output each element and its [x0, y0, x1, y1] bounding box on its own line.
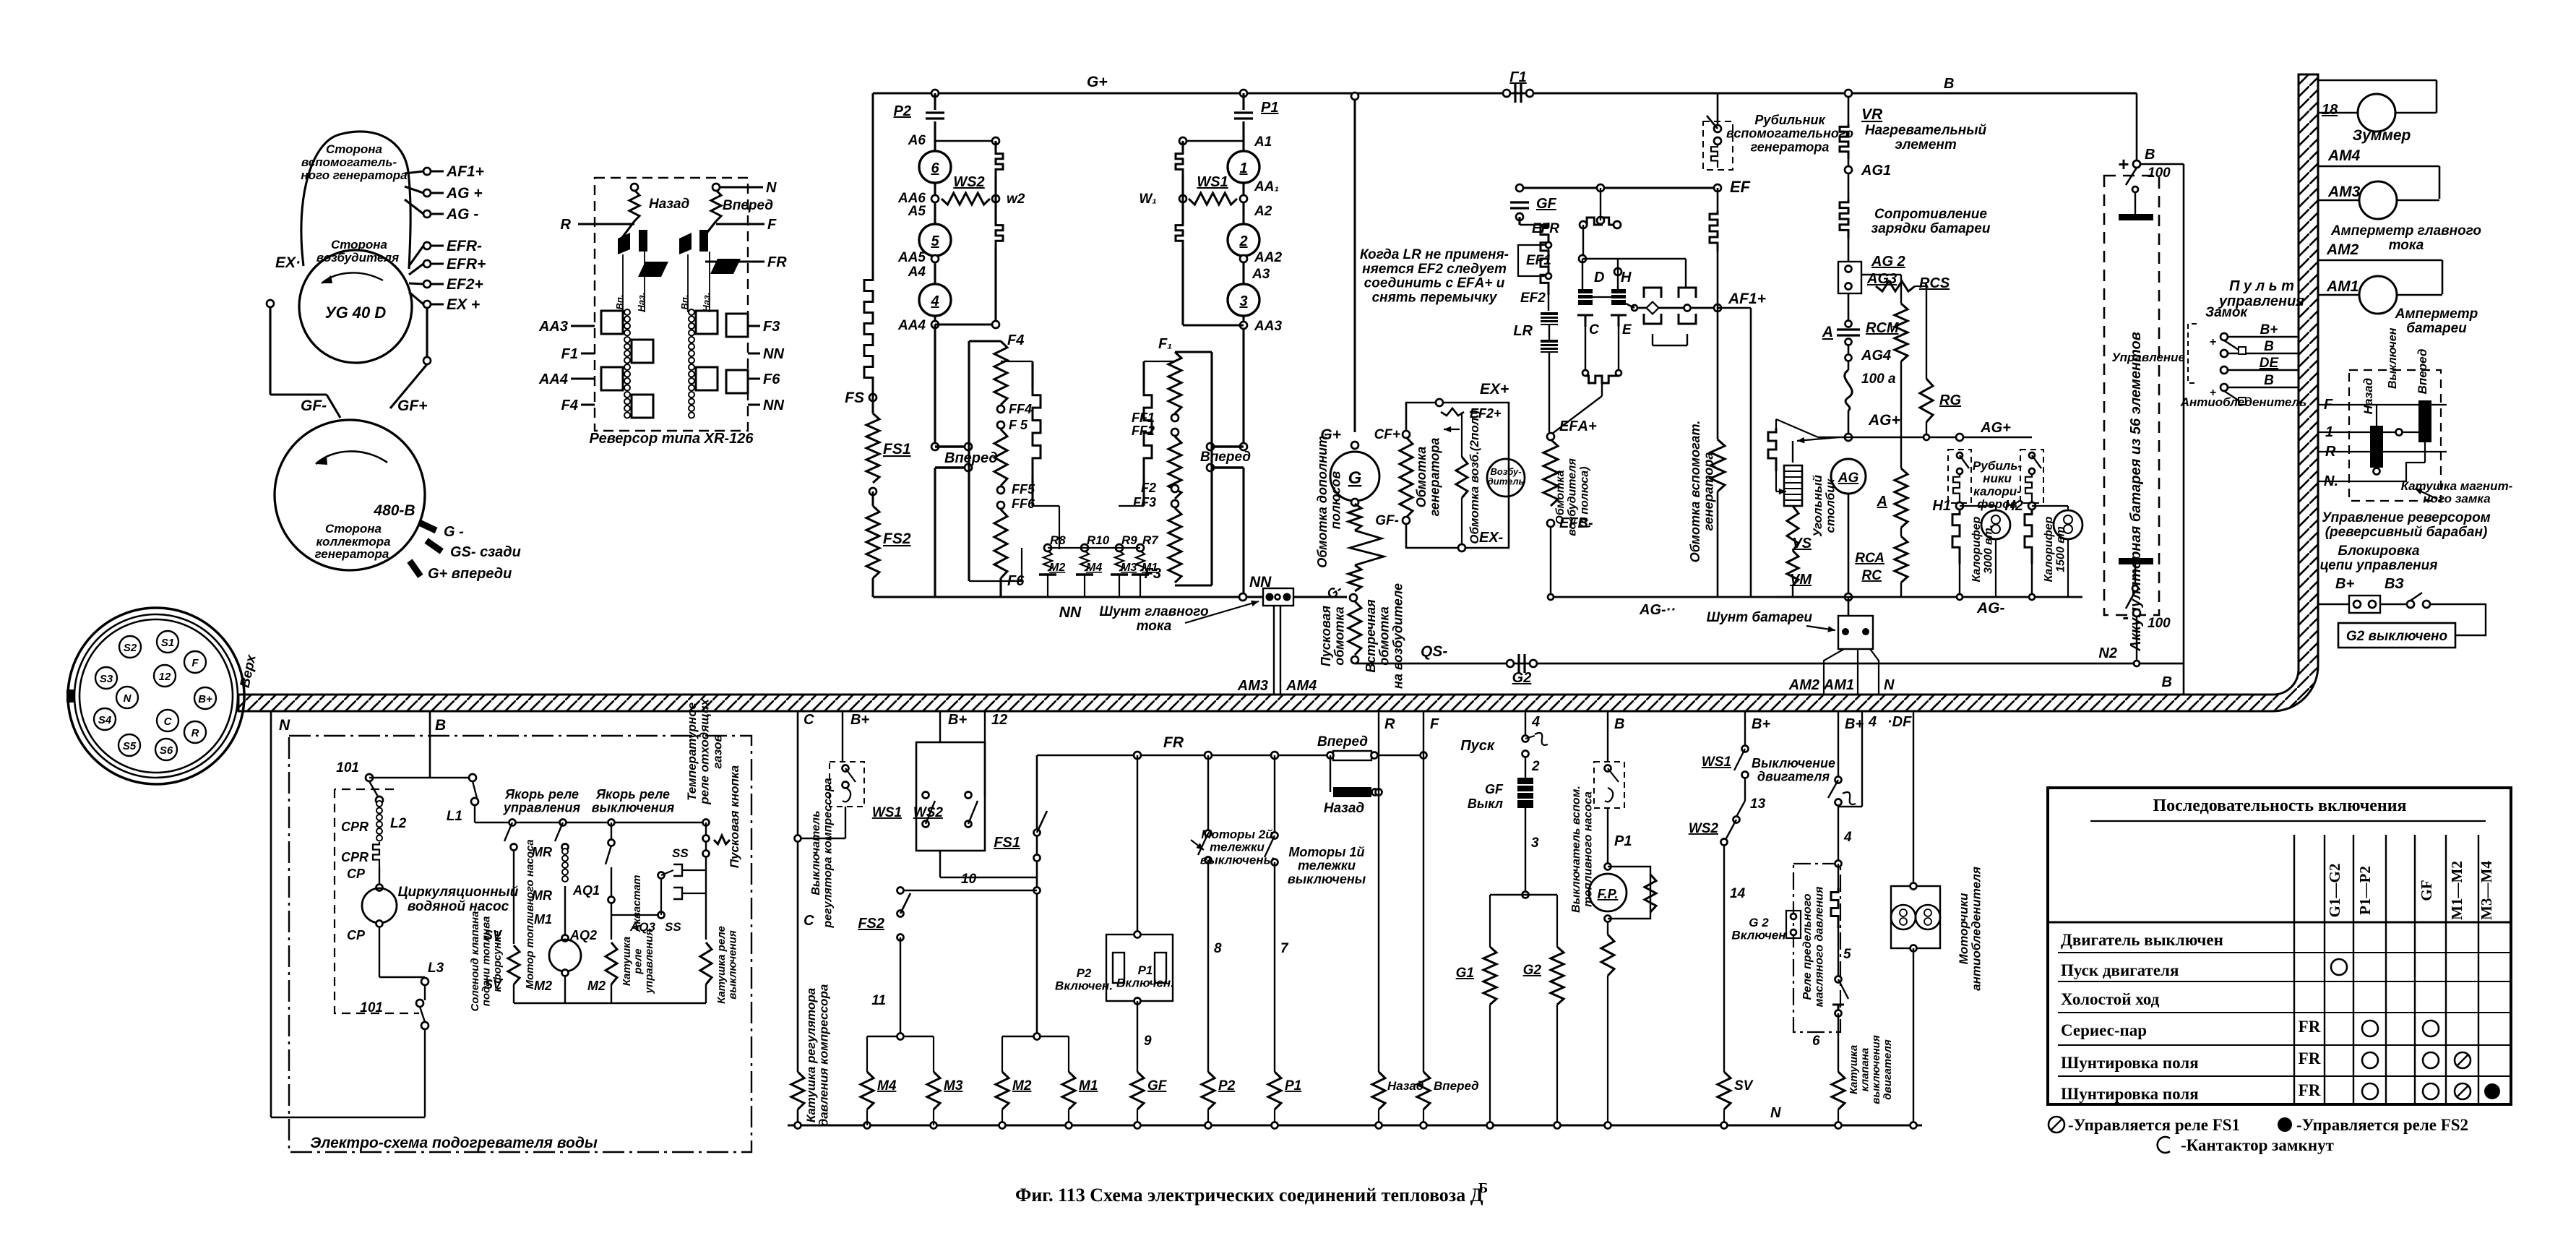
node vpered L1r	[965, 443, 972, 450]
svg-text:SS: SS	[665, 920, 681, 934]
shunt arrow	[1185, 601, 1259, 623]
node FF6	[997, 502, 1004, 509]
svg-text:Обмотка возб.(2пол.): Обмотка возб.(2пол.)	[1468, 410, 1481, 544]
connector pin R	[184, 721, 206, 743]
svg-text:Вперед: Вперед	[2416, 349, 2429, 395]
node AA2	[1240, 255, 1247, 262]
node GF+	[423, 357, 431, 364]
wire RG down	[1926, 422, 1927, 437]
ammeter AG	[1831, 459, 1866, 494]
wire drum right	[702, 221, 716, 239]
oil sw b	[1835, 1010, 1842, 1017]
wire relay right down	[1685, 259, 1687, 288]
svg-text:L1: L1	[447, 809, 462, 824]
wire R rail	[1378, 1109, 1379, 1125]
svg-text:В: В	[2264, 373, 2274, 388]
mark sh2 m1m2	[2455, 1083, 2471, 1099]
svg-text:SS: SS	[672, 846, 689, 860]
resistor vpered coil2	[1417, 1072, 1430, 1109]
motor anti2 in t	[1924, 909, 1931, 916]
svg-text:w2: w2	[1007, 192, 1025, 207]
wire M2 rail	[1001, 1109, 1003, 1125]
resistor F1a	[1168, 352, 1181, 413]
svg-text:генератора: генератора	[315, 547, 389, 561]
node AQ top	[608, 820, 615, 826]
svg-text:Обмоткагенератора: Обмоткагенератора	[1414, 438, 1442, 517]
wire N down	[270, 711, 272, 1117]
wire top heater	[369, 777, 473, 779]
arrow pile	[1776, 489, 1786, 495]
svg-text:G2: G2	[1523, 963, 1542, 978]
resistor rubilnik	[1711, 145, 1718, 168]
wire RCM v	[1900, 275, 1902, 304]
node G-	[1350, 594, 1357, 601]
node EFB-	[1547, 520, 1554, 527]
mark sh1 m1m2	[2455, 1052, 2471, 1068]
pusk link	[1525, 736, 1535, 739]
wire branchR v4	[1181, 249, 1184, 325]
svg-text:Пусковаяобмотка: Пусковаяобмотка	[1319, 605, 1347, 666]
node bump L	[1580, 221, 1587, 228]
switch blok box	[2349, 596, 2380, 613]
rail node M1	[1066, 1122, 1072, 1129]
terminal pult В	[2220, 350, 2228, 357]
drum segment R1	[696, 311, 718, 334]
wire GF- to commutator	[327, 395, 340, 418]
inductor LR lower	[1541, 340, 1558, 353]
contact flag3	[679, 233, 692, 254]
relay coil H stripes	[1611, 294, 1626, 299]
svg-text:Нагревательныйэлемент: Нагревательныйэлемент	[1865, 123, 1987, 152]
svg-text:А3: А3	[1252, 267, 1270, 282]
svg-text:F 5: F 5	[1009, 418, 1028, 432]
wire bank L b2	[1021, 548, 1022, 581]
wire oil v3	[1838, 864, 1839, 888]
wire AA4 branch	[935, 323, 996, 325]
svg-text:вспомогатель-: вспомогатель-	[301, 155, 397, 169]
wire P2 rail	[1207, 1109, 1209, 1125]
wire blok mid	[2380, 603, 2406, 605]
svg-text:А2: А2	[1254, 204, 1272, 219]
terminal circle EF2+	[423, 280, 431, 288]
resistor F1b	[1168, 437, 1181, 499]
node A cap top	[1845, 321, 1852, 327]
connector pin N	[116, 687, 138, 708]
resistor WS1	[1189, 193, 1237, 205]
svg-text:4: 4	[930, 293, 939, 309]
svg-text:СР: СР	[347, 928, 366, 942]
wire AM1	[1857, 649, 1858, 695]
resistor branch upper	[996, 151, 1003, 177]
svg-text:М1: М1	[534, 912, 552, 927]
resistor nazad coil	[629, 190, 639, 221]
svg-text:АА2: АА2	[1254, 250, 1282, 265]
node FS1 bottom	[869, 488, 876, 495]
svg-text:LR: LR	[1513, 323, 1533, 339]
node A cap bot	[1845, 339, 1852, 345]
svg-text:RСМ: RСМ	[1866, 320, 1900, 336]
resistor R7	[1136, 551, 1145, 571]
svg-text:В: В	[2264, 339, 2274, 354]
svg-text:GF: GF	[2418, 880, 2435, 901]
resistor fp loop	[1645, 875, 1656, 912]
fuse vpered	[1333, 751, 1371, 760]
svg-text:18: 18	[2322, 102, 2338, 118]
svg-text:АG-··: АG-··	[1639, 602, 1676, 618]
wire fuel down	[1607, 808, 1608, 864]
svg-text:S2: S2	[124, 642, 137, 654]
wire AQ1 down	[611, 867, 612, 897]
wire stepL to bank	[1033, 505, 1059, 507]
resistor katushka vykl	[700, 942, 712, 984]
svg-text:4: 4	[1843, 830, 1852, 845]
wire pile top	[1792, 441, 1793, 463]
generator G	[1330, 452, 1379, 501]
svg-text:WS2: WS2	[953, 174, 984, 190]
capacitor G1 plate	[1520, 84, 1522, 103]
svg-text:N: N	[279, 717, 290, 734]
switch MR blade	[555, 822, 563, 841]
shunt bat dot1	[1842, 628, 1849, 635]
rail node M3	[931, 1122, 937, 1129]
svg-text:RСА: RСА	[1855, 551, 1884, 566]
resistor zaryadki	[1840, 199, 1848, 239]
wire to AG2	[1848, 239, 1850, 262]
switch regulator dashed	[830, 762, 864, 807]
fr end	[1327, 752, 1334, 759]
svg-text:N: N	[1770, 1105, 1781, 1121]
node H2 bot	[2029, 594, 2035, 600]
p1 sw b	[1272, 859, 1278, 866]
heater inner dashed	[335, 789, 419, 1013]
rail node SV	[1721, 1122, 1728, 1129]
svg-text:+: +	[2210, 387, 2216, 399]
connector pin S3	[95, 667, 117, 689]
resistor M2	[996, 1072, 1009, 1109]
resistor RCM	[1895, 304, 1908, 361]
wire M4 v	[866, 1036, 868, 1072]
node FF3	[1171, 500, 1179, 507]
svg-text:В+: В+	[850, 712, 869, 728]
lead F1	[581, 352, 595, 354]
svg-text:AG -: AG -	[446, 206, 478, 223]
fs1 blade	[1037, 811, 1047, 833]
resistor EF2 tap	[1441, 408, 1464, 416]
wire 4-AA4	[934, 316, 936, 325]
switch rubilnik blade	[1707, 116, 1718, 129]
svg-text:8: 8	[1214, 941, 1222, 956]
svg-text:АG4: АG4	[1861, 348, 1891, 364]
wire EX- down	[269, 307, 271, 395]
svg-text:А6: А6	[908, 133, 926, 148]
svg-text:-Кантактор замкнут: -Кантактор замкнут	[2181, 1136, 2335, 1154]
wire motor down	[564, 976, 566, 1003]
svg-text:ЕF2: ЕF2	[1520, 291, 1546, 306]
terminal stub GS- сзади	[426, 541, 441, 551]
svg-text:Моторчикиантиобледенителя: Моторчикиантиобледенителя	[1957, 867, 1983, 991]
svg-text:Р1: Р1	[1614, 833, 1632, 849]
wire QS-	[1355, 663, 2184, 665]
rail node C	[795, 1122, 801, 1129]
node L1 b	[471, 798, 478, 805]
node GF-2	[1403, 517, 1410, 524]
terminal tick AG +	[405, 186, 423, 193]
wire stepR to bank	[1119, 505, 1144, 507]
resistor GF coil	[1131, 1072, 1144, 1109]
svg-text:В: В	[2145, 147, 2155, 163]
node AA5	[931, 255, 939, 262]
resistor P1 coil	[1268, 1072, 1281, 1109]
contact vpered R1	[1210, 445, 1244, 447]
arrow EF2	[1444, 426, 1460, 433]
wire RCM top	[1861, 274, 1901, 275]
terminal block AG2-AG3	[1838, 262, 1861, 293]
wire lamp top Н1	[1995, 506, 1996, 510]
wire MR down	[564, 886, 566, 935]
contact fork 4	[1679, 314, 1696, 324]
node pump top	[376, 885, 383, 891]
node CF+	[1403, 431, 1410, 438]
svg-text:Реверсор типа ХR-126: Реверсор типа ХR-126	[590, 431, 754, 447]
switch L1 blade	[473, 781, 477, 798]
wire branchR v3	[1181, 199, 1184, 223]
svg-text:Н1: Н1	[1932, 498, 1951, 514]
resistor RCA	[1895, 536, 1908, 583]
lamp inner bot Н2	[2064, 525, 2072, 533]
svg-text:АQ1: АQ1	[572, 883, 600, 898]
svg-text:Моторы 2йтележкивыключены: Моторы 2йтележкивыключены	[1200, 828, 1275, 867]
wire AG down	[1848, 494, 1850, 597]
terminal stub G -	[419, 523, 436, 530]
svg-text:В: В	[2162, 674, 2172, 690]
resistor F4c	[994, 510, 1007, 578]
wire R lead	[578, 223, 634, 225]
resistor katushka upr	[606, 942, 617, 984]
wire AA3 branch	[1183, 324, 1244, 326]
svg-text:Шунт батареи: Шунт батареи	[1707, 610, 1813, 625]
svg-text:-: -	[2122, 606, 2129, 627]
wire B+1 down	[845, 807, 846, 838]
oil blade	[1828, 780, 1838, 798]
wire AG+ right	[1848, 437, 2032, 439]
wire bottom rail	[788, 1125, 1922, 1127]
svg-text:В: В	[1614, 716, 1624, 732]
p2 blade	[1198, 833, 1208, 855]
svg-text:GF-: GF-	[301, 398, 327, 414]
wire shunt to G-	[1293, 596, 1347, 598]
wire branchR top	[1183, 140, 1244, 142]
terminal pult DЕ	[2220, 366, 2228, 374]
svg-text:NN: NN	[1059, 604, 1082, 621]
motor anti1 in t	[1900, 909, 1907, 916]
svg-text:R: R	[191, 727, 199, 739]
svg-text:М4: М4	[877, 1078, 897, 1094]
wire AG2 down	[1848, 293, 1850, 324]
battery bottom switch blade	[2126, 591, 2135, 609]
contact SS fork2	[673, 888, 682, 899]
svg-text:5: 5	[931, 233, 939, 249]
ws2e n1	[1733, 817, 1740, 823]
drum contacts col1	[624, 309, 630, 418]
wire H stem	[1617, 259, 1619, 289]
table column line 0	[2293, 835, 2295, 1104]
oil sw t	[1835, 976, 1842, 983]
wire inner vert	[1461, 413, 1463, 457]
wire C stem	[1585, 327, 1586, 373]
node M21	[1034, 1034, 1041, 1040]
svg-text:В: В	[1944, 76, 1954, 92]
svg-text:АА3: АА3	[538, 319, 568, 335]
wire AM2 right	[2442, 260, 2444, 294]
node bat bottom	[2133, 609, 2140, 616]
svg-text:АG3: АG3	[1866, 271, 1897, 287]
svg-text:G 2Включен: G 2Включен	[1731, 916, 1785, 942]
oil n1	[1835, 777, 1842, 783]
rail node M2	[999, 1122, 1006, 1129]
connector pin F	[184, 651, 206, 673]
svg-text:М2: М2	[1049, 562, 1065, 574]
drum segment L2	[632, 340, 653, 363]
node G1 right	[1526, 90, 1533, 97]
lead AA3	[571, 325, 595, 327]
wire G2 down	[1556, 1005, 1558, 1125]
node L1 a	[469, 774, 476, 781]
wire EX+ down	[426, 308, 428, 357]
ws2 node b	[965, 821, 972, 828]
contact fork 3	[1644, 314, 1661, 324]
fs2 blade	[900, 893, 910, 914]
resistor pile steps	[1768, 428, 1776, 471]
svg-text:480-В: 480-В	[373, 502, 415, 519]
svg-text:АG+: АG+	[1980, 420, 2011, 436]
fr node p2	[1205, 752, 1212, 759]
svg-text:М2: М2	[1012, 1078, 1032, 1094]
svg-text:WS1: WS1	[872, 805, 902, 820]
node KV b	[703, 851, 710, 857]
rail node M4	[864, 1122, 871, 1129]
node vpered R1l	[1207, 443, 1214, 450]
node EF1 bot	[1546, 273, 1551, 279]
wire FR lead	[705, 260, 764, 262]
node bbump L	[1582, 370, 1588, 376]
main current shunt box	[1263, 588, 1293, 606]
wire oil rail	[1838, 1109, 1839, 1125]
wire E stem	[1618, 327, 1619, 373]
wire ws2e down	[1723, 845, 1725, 1072]
node EF left	[1516, 184, 1523, 192]
wire P1 cap lead	[1242, 93, 1244, 110]
ws1e n1	[1742, 746, 1749, 752]
wire 5-AA5	[934, 256, 936, 284]
heater dash-dot box	[289, 736, 751, 1152]
svg-text:G1: G1	[1456, 966, 1474, 981]
capacitor GF plate	[1510, 207, 1529, 209]
wire P2-A6	[934, 121, 936, 151]
node AA4	[931, 321, 939, 328]
wire aq3 h	[611, 914, 661, 916]
resistor vpered coil	[711, 190, 721, 221]
svg-text:Сторона: Сторона	[326, 142, 382, 156]
svg-text:+: +	[2118, 153, 2129, 175]
svg-text:6: 6	[931, 160, 939, 176]
battery top switch blade	[2126, 168, 2137, 185]
svg-text:АМ4: АМ4	[2327, 147, 2361, 164]
wire FS1 gap	[872, 491, 874, 506]
svg-text:101: 101	[360, 1000, 383, 1015]
arrow katushka	[2415, 489, 2437, 499]
wire EF line	[1520, 187, 1718, 189]
svg-text:АМ4: АМ4	[1285, 678, 1317, 694]
oil relay dashdot box	[1793, 864, 1840, 1032]
fuse nazad	[1333, 787, 1371, 797]
arrowhead	[322, 275, 332, 283]
inductor LR upper	[1541, 312, 1558, 325]
resistor R10	[1080, 551, 1089, 571]
wire DH link	[1593, 296, 1611, 298]
svg-text:S5: S5	[123, 740, 137, 752]
contact SS fork1	[673, 864, 682, 876]
node EFA+	[1547, 433, 1554, 440]
node G1 left	[1503, 90, 1510, 97]
terminal lead EF2+	[431, 283, 444, 285]
svg-text:Электро-схема подогревателя во: Электро-схема подогревателя воды	[310, 1135, 598, 1151]
contact C bar	[1577, 315, 1593, 327]
node efb corner	[1548, 594, 1554, 600]
wire R8 down	[1047, 575, 1048, 597]
wire ws box down	[939, 851, 941, 877]
terminal circle EX +	[423, 301, 431, 308]
svg-text:В+: В+	[2260, 322, 2278, 338]
fuse GF stripes	[1517, 785, 1533, 799]
fp top	[1605, 864, 1611, 870]
svg-text:FS1: FS1	[994, 835, 1020, 851]
wire R9 down	[1119, 575, 1120, 597]
wire ws1e v2	[1737, 777, 1745, 778]
resistor pusk	[1348, 601, 1361, 655]
wire 1-AA1	[1242, 183, 1244, 224]
wire stepR top	[1142, 361, 1145, 389]
contactor 4	[919, 284, 951, 316]
terminal tick AF1+	[405, 171, 423, 173]
switch reg blade	[845, 768, 856, 782]
wire pump corner	[379, 976, 425, 978]
mark sh2 p1p2	[2362, 1083, 2378, 1099]
svg-text:ЕFВ-: ЕFВ-	[1559, 515, 1593, 531]
svg-text:Р1: Р1	[1285, 1078, 1301, 1094]
wire stepL bottom	[1031, 477, 1033, 506]
shunt dot right	[1283, 593, 1291, 601]
drum contacts col2	[689, 309, 694, 418]
svg-text:тока: тока	[1137, 619, 1172, 634]
relay blade	[1626, 304, 1634, 308]
node F5	[997, 421, 1004, 429]
node AG+ H1	[1956, 434, 1963, 441]
resistor WS2	[942, 193, 990, 205]
svg-text:Шунтировка поля: Шунтировка поля	[2061, 1054, 2199, 1072]
relay coil D	[1578, 289, 1593, 305]
resistor FS2	[866, 506, 879, 578]
node EF1 top	[1546, 242, 1551, 248]
wire RG top	[1915, 285, 1926, 287]
svg-text:GS- сзади: GS- сзади	[450, 544, 521, 560]
wire P1 down	[1274, 862, 1275, 1072]
svg-text:Пусковая кнопка: Пусковая кнопка	[728, 765, 741, 868]
svg-text:G+: G+	[1087, 74, 1108, 90]
svg-text:SV: SV	[1734, 1078, 1754, 1094]
table column line 2	[2353, 835, 2354, 1104]
svg-text:EFR-: EFR-	[447, 238, 482, 254]
svg-text:Моторы 1йтележкивыключены: Моторы 1йтележкивыключены	[1288, 845, 1366, 886]
